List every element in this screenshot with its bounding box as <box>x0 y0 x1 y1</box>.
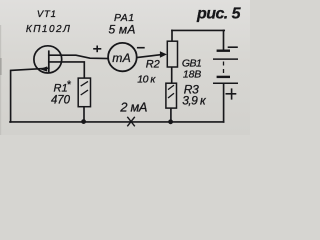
svg-text:R1: R1 <box>54 83 68 95</box>
svg-text:рис. 5: рис. 5 <box>196 6 242 23</box>
svg-text:18В: 18В <box>183 68 201 80</box>
svg-text:3,9 к: 3,9 к <box>182 94 207 108</box>
svg-text:VT1: VT1 <box>37 9 57 20</box>
svg-text:КП102Л: КП102Л <box>26 24 71 35</box>
svg-text:5 мА: 5 мА <box>109 23 136 37</box>
svg-text:470: 470 <box>51 95 71 107</box>
svg-text:10 к: 10 к <box>137 74 156 86</box>
svg-text:2 мА: 2 мА <box>119 100 147 115</box>
svg-text:R2: R2 <box>146 58 160 70</box>
svg-text:*: * <box>67 79 72 91</box>
svg-text:mA: mA <box>112 51 131 65</box>
